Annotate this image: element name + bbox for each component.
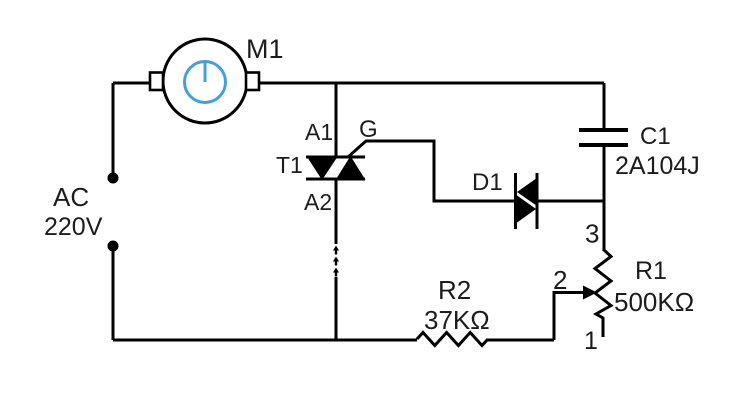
wire: wiper lead from bottom wire up to R1 xyxy=(554,293,585,341)
svg-text:D1: D1 xyxy=(472,169,503,196)
svg-text:3: 3 xyxy=(585,219,599,249)
wire: triac lead to bottom wire xyxy=(335,277,338,340)
wire: gate G from triac to D1 xyxy=(348,141,515,201)
wire: triac A2 lead down xyxy=(335,179,338,244)
svg-text:T1: T1 xyxy=(276,152,303,178)
svg-text:G: G xyxy=(359,116,378,143)
svg-text:500KΩ: 500KΩ xyxy=(614,287,694,317)
resistor R2 xyxy=(417,333,488,346)
svg-text:220V: 220V xyxy=(44,213,103,241)
svg-text:1: 1 xyxy=(584,327,598,355)
svg-text:C1: C1 xyxy=(640,123,671,150)
triac T1 xyxy=(306,156,366,180)
svg-text:AC: AC xyxy=(53,182,89,212)
svg-text:M1: M1 xyxy=(246,34,284,64)
svg-text:2: 2 xyxy=(553,265,567,295)
wire: left vertical upper (AC top lead) xyxy=(112,83,115,174)
wire: C1 bottom to D1/R1 junction xyxy=(603,147,606,249)
node: AC upper terminal dot xyxy=(108,173,119,184)
wire: bottom horizontal right of R2 xyxy=(488,339,554,342)
svg-text:A2: A2 xyxy=(304,189,332,215)
motor M1 xyxy=(150,39,259,123)
svg-text:R2: R2 xyxy=(438,275,471,305)
wire: D1 to C1/R1 junction xyxy=(538,200,604,203)
node: breakline arrows on A2 lead xyxy=(333,246,339,277)
svg-text:37KΩ: 37KΩ xyxy=(424,305,490,335)
wire: left vertical lower (AC bottom lead) xyxy=(112,250,115,340)
node: AC lower terminal dot xyxy=(108,241,119,252)
wire: triac branch from top wire down to A1 xyxy=(335,83,338,158)
wire: bottom horizontal left of R2 xyxy=(113,339,417,342)
svg-text:2A104J: 2A104J xyxy=(615,152,700,180)
diac D1 xyxy=(515,173,537,229)
svg-text:R1: R1 xyxy=(635,257,667,285)
potentiometer R1 xyxy=(595,249,611,337)
wire: top horizontal from motor to right corner xyxy=(259,82,604,85)
svg-text:A1: A1 xyxy=(305,119,333,145)
wire: right vertical down to C1 xyxy=(603,83,606,129)
node: wiper arrowhead into R1 pin 2 xyxy=(583,286,597,300)
wire: top-left horizontal from AC to motor xyxy=(113,82,151,85)
capacitor C1 xyxy=(579,130,628,145)
